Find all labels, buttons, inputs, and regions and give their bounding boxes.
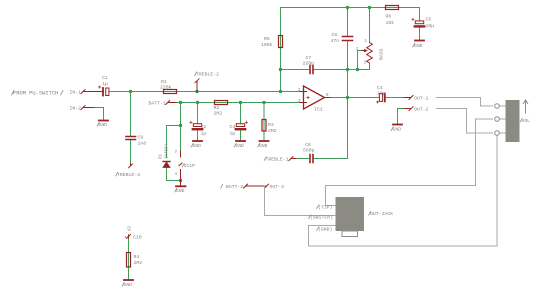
capacitor C8 560p — [310, 155, 313, 163]
wire IN-2 to GND — [94, 108, 104, 120]
BASS potentiometer zigzag — [362, 43, 373, 64]
wire C3 bottom lead — [240, 130, 242, 140]
wire C10 stub through R4 to GND — [128, 238, 130, 280]
junction R5/C7 line — [279, 68, 282, 71]
wire op-amp output to C4 — [329, 97, 379, 99]
pot terminal stubs — [500, 106, 506, 133]
wire OUT-3 to jack SWITCH — [265, 186, 336, 216]
svg-text:10k: 10k — [386, 20, 395, 26]
IC1P pin mark — [179, 163, 182, 166]
wire C6 top lead — [347, 8, 349, 37]
svg-text:GND: GND — [236, 143, 245, 149]
junction BATT-1 corner — [179, 101, 182, 104]
capacitor C1 plus — [99, 86, 101, 88]
ground bar under C2 — [193, 140, 202, 142]
wire main signal line (C1 right to op-amp pin2) — [110, 91, 301, 93]
svg-text:2M2: 2M2 — [134, 260, 143, 266]
wire C7 line right — [314, 69, 370, 71]
wire OUT-2 to pot terminal 3 — [437, 109, 493, 134]
svg-text:1µ: 1µ — [102, 81, 108, 87]
wire OUT-1 to pot terminal 1 — [437, 98, 493, 107]
junction C6 top rail — [346, 6, 349, 9]
svg-text:R5: R5 — [264, 36, 270, 42]
svg-text:4: 4 — [175, 173, 178, 177]
resistor R5 100k — [279, 36, 283, 48]
wire feedback vertical (C7 line through output down to C8 line) — [314, 70, 348, 159]
IC1P power stub pin7 — [180, 151, 182, 157]
svg-text:1N4004: 1N4004 — [166, 143, 170, 159]
svg-text:FROM PU-SWITCH: FROM PU-SWITCH — [13, 91, 58, 97]
svg-text:GND: GND — [414, 43, 423, 49]
resistor R1 220k — [164, 90, 177, 94]
junction output/feedback — [346, 96, 349, 99]
capacitor C1 1u polarized — [103, 88, 109, 96]
svg-text:OUT-JACK: OUT-JACK — [370, 211, 393, 217]
pin TREBLE-2 — [195, 79, 199, 92]
svg-text:10µ: 10µ — [377, 91, 386, 97]
svg-text:C1: C1 — [102, 75, 108, 81]
label flag ticks — [97, 43, 522, 286]
wire IC1P top lead — [180, 103, 182, 152]
capacitor C2 1u polarized — [193, 124, 202, 130]
wire pot wiper to jack TIP — [326, 119, 493, 206]
wire C9 branch top — [130, 92, 132, 136]
svg-text:R1: R1 — [161, 79, 167, 85]
junction D1 bottom — [179, 179, 182, 182]
pot terminal 1 — [495, 104, 500, 109]
svg-text:10µ: 10µ — [426, 23, 435, 29]
svg-text:(TIP): (TIP) — [318, 205, 333, 211]
svg-text:1n8: 1n8 — [138, 141, 147, 147]
ground bar under OUT-2 — [393, 124, 402, 126]
svg-text:IN-2: IN-2 — [70, 106, 82, 112]
svg-text:C3: C3 — [230, 124, 236, 130]
ground bar under C3 — [236, 140, 245, 142]
svg-text:47n: 47n — [331, 38, 340, 44]
svg-text:C8: C8 — [305, 142, 311, 148]
IC1P power stub pin4 — [180, 170, 182, 187]
wire bias line (BATT-1 to op-amp pin3) — [176, 102, 301, 104]
pin C10 — [127, 235, 131, 239]
svg-text:VOL: VOL — [522, 118, 531, 124]
ground bar under R4 — [124, 279, 133, 281]
svg-text:C6: C6 — [332, 32, 338, 38]
svg-text:IC1: IC1 — [314, 107, 323, 113]
capacitor C6 47n — [343, 37, 353, 41]
BASS wiper arrow — [362, 50, 365, 52]
svg-text:OUT-3: OUT-3 — [270, 184, 285, 190]
capacitor C7 220p — [310, 66, 313, 74]
capacitor C3 1u polarized — [236, 124, 245, 130]
wire C9 branch bottom — [130, 140, 132, 164]
pin OUT-1 — [404, 96, 413, 100]
svg-text:2M2: 2M2 — [214, 111, 223, 117]
label FROM PU-SWITCH flag ticks — [12, 91, 64, 96]
jack sleeve notch — [342, 231, 358, 237]
wire C5 bottom lead — [419, 28, 421, 40]
wire OUT-2 stub and GND drop — [398, 109, 405, 124]
svg-text:BASS: BASS — [379, 48, 385, 60]
svg-text:TREBLE-2: TREBLE-2 — [196, 72, 219, 78]
capacitor C5 plus — [412, 18, 414, 20]
capacitor C4 10u polarized — [379, 94, 384, 102]
wire C2 top lead — [197, 103, 199, 124]
svg-text:C4: C4 — [377, 85, 383, 91]
potentiometer VOL block — [495, 100, 530, 142]
svg-text:C2: C2 — [201, 124, 207, 130]
jack OUT-JACK block — [336, 197, 365, 237]
ground bar under R3 — [260, 140, 269, 142]
svg-text:BATT-2: BATT-2 — [226, 184, 243, 190]
wire BASS pot top lead — [369, 8, 371, 43]
svg-text:V2: V2 — [129, 225, 133, 231]
svg-text:R2: R2 — [214, 105, 220, 111]
svg-text:1µ: 1µ — [201, 131, 207, 137]
svg-text:C5: C5 — [426, 17, 432, 23]
wire BATT-1 corner — [176, 102, 181, 104]
junction C9/main — [129, 90, 132, 93]
svg-text:IN-1: IN-1 — [70, 90, 82, 96]
svg-text:GND: GND — [393, 127, 402, 133]
svg-text:TREBLE-3: TREBLE-3 — [117, 172, 140, 178]
pin TREBLE-1 — [289, 157, 296, 161]
svg-text:220k: 220k — [160, 85, 172, 91]
wire C4 to OUT-1 pin — [386, 97, 404, 99]
resistor R6 10k — [386, 6, 399, 10]
pin OUT-3 — [265, 184, 269, 188]
pin OUT-2 — [404, 107, 413, 111]
svg-text:1µ: 1µ — [230, 131, 236, 137]
svg-text:R3: R3 — [268, 122, 274, 128]
svg-text:GND: GND — [124, 282, 133, 288]
pin TREBLE-3 — [129, 164, 133, 168]
diode D1 1N4004 — [163, 162, 170, 168]
junction D1 top — [179, 124, 182, 127]
svg-text:TREBLE-1: TREBLE-1 — [266, 157, 289, 163]
svg-text:IC1P: IC1P — [184, 163, 196, 169]
svg-text:(GND): (GND) — [318, 227, 333, 233]
pin IN-1 — [81, 90, 102, 94]
pin C10 dot — [125, 236, 127, 238]
pin BATT-2 — [244, 184, 267, 188]
svg-text:GND: GND — [176, 188, 185, 194]
wire D1 loop bottom — [167, 168, 181, 181]
wire D1 loop top — [167, 126, 181, 158]
svg-text:(SWITCH): (SWITCH) — [310, 215, 333, 221]
resistor R2 2M2 — [215, 101, 228, 105]
wire jack GND loop to pot terminal 3 bottom — [309, 136, 498, 247]
svg-text:GND: GND — [259, 143, 268, 149]
wire C6 bottom lead — [347, 41, 349, 70]
ground bar under C5 — [415, 40, 424, 42]
svg-text:3: 3 — [364, 62, 367, 66]
junction C2/bias — [196, 101, 199, 104]
op-amp IC1 — [300, 86, 330, 109]
svg-text:2M2: 2M2 — [268, 128, 277, 134]
pot terminal 3 — [495, 131, 500, 136]
junction C3/bias — [239, 101, 242, 104]
wire BASS pot bottom lead — [369, 63, 371, 70]
junction R5/main — [279, 90, 282, 93]
wire C7 line left — [281, 69, 309, 71]
ground bar under IN-2 — [99, 120, 108, 122]
wire C3 top lead — [240, 103, 242, 124]
svg-text:7: 7 — [175, 151, 178, 155]
svg-text:C9: C9 — [138, 135, 144, 141]
svg-text:BATT-1: BATT-1 — [149, 101, 166, 107]
svg-text:C10: C10 — [133, 235, 142, 241]
capacitor C4 plus — [376, 101, 378, 103]
svg-text:OUT-1: OUT-1 — [414, 96, 429, 102]
svg-text:220p: 220p — [303, 61, 315, 67]
junction TREBLE-2/main — [195, 90, 198, 93]
svg-text:C7: C7 — [306, 55, 312, 61]
svg-text:OUT-2: OUT-2 — [414, 107, 429, 113]
junction C6/C7 line — [346, 68, 349, 71]
resistor R4 2M2 — [127, 253, 131, 268]
junction BASS top rail — [368, 6, 371, 9]
wire R5 top lead to top rail — [280, 8, 282, 92]
wire TREBLE-1 to C8 — [296, 158, 309, 160]
svg-text:1: 1 — [365, 40, 368, 44]
svg-text:R6: R6 — [386, 14, 392, 20]
junction R3/bias — [262, 101, 265, 104]
resistor R3 2M2 — [262, 120, 266, 132]
svg-text:D1: D1 — [160, 153, 164, 159]
wire BASS wiper to C7 line — [358, 51, 362, 70]
svg-text:GND: GND — [99, 122, 108, 128]
svg-text:100k: 100k — [261, 42, 273, 48]
junction wiper/C7 line — [356, 68, 359, 71]
ground bar under IC1P — [176, 185, 186, 187]
VOL arrow — [523, 100, 527, 113]
wire C2 bottom lead — [197, 130, 199, 140]
pin BATT-1 — [166, 101, 176, 105]
capacitor C5 10u polarized — [415, 21, 424, 27]
wire R3 leads — [263, 103, 265, 141]
svg-text:560p: 560p — [303, 148, 315, 154]
pot terminal 2 (wiper) — [495, 117, 500, 122]
wire top rail — [281, 8, 420, 21]
svg-text:GND: GND — [193, 143, 202, 149]
capacitor C2 plus — [190, 121, 192, 123]
capacitor C9 1n8 — [126, 137, 136, 140]
capacitor C3 plus — [245, 121, 247, 123]
pin IN-2 — [81, 106, 94, 110]
svg-text:R4: R4 — [134, 254, 140, 260]
